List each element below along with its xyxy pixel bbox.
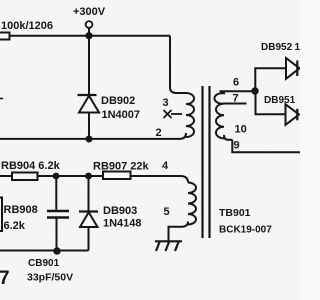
- transformer TB901 lower winding pins 4-5: [169, 183, 197, 241]
- capacitor CB901: [47, 211, 69, 218]
- node junction +300V rail: [85, 32, 92, 39]
- svg-text:100k/1206: 100k/1206: [1, 20, 53, 32]
- svg-text:RB907 22k: RB907 22k: [93, 161, 150, 173]
- svg-text:1N4007: 1N4007: [102, 109, 141, 121]
- diode DB902: [78, 95, 100, 113]
- wire to DB951: [256, 91, 286, 114]
- svg-text:RB908: RB908: [4, 204, 38, 216]
- resistor RB907: [103, 172, 131, 180]
- svg-text:7: 7: [233, 93, 239, 105]
- transformer TB901 secondary winding pins 6-7-10-9: [214, 92, 232, 140]
- node tap X pin 3: [164, 110, 183, 118]
- svg-text:33pF/50V: 33pF/50V: [27, 272, 73, 284]
- svg-text:7: 7: [0, 268, 10, 289]
- svg-text:DB951: DB951: [264, 95, 296, 106]
- svg-text:4: 4: [162, 160, 169, 172]
- node junction cap CB901 tap: [53, 173, 60, 180]
- power terminal +300V: [86, 21, 93, 28]
- wire DB902 cathode lead: [88, 36, 90, 95]
- wire CB901 top lead: [55, 176, 57, 210]
- wire pin 7 tap lead: [223, 103, 247, 105]
- wire W3 middle rail to transformer pin 4: [0, 176, 188, 183]
- svg-text:9: 9: [234, 140, 240, 152]
- svg-text:DB952: DB952: [261, 42, 293, 53]
- svg-text:3: 3: [163, 97, 169, 109]
- svg-text:RB904 6.2k: RB904 6.2k: [1, 160, 61, 172]
- wire to DB952: [255, 68, 285, 91]
- wire W4 bottom rail: [0, 250, 89, 252]
- wire DB903 cathode lead: [88, 176, 90, 211]
- wire CB901 bottom lead: [56, 219, 58, 251]
- svg-text:TB901: TB901: [219, 207, 251, 219]
- svg-text:5: 5: [164, 206, 170, 218]
- resistor R 100k/1206 (body clipped at left edge): [0, 33, 10, 40]
- wire pin 6 lead: [220, 90, 255, 92]
- diode DB903: [79, 212, 98, 228]
- transformer TB901 core: [203, 86, 210, 238]
- wire DB903 anode lead: [88, 227, 90, 251]
- resistor RB908 (body clipped at left edge): [0, 198, 2, 232]
- diode DB952: [286, 58, 300, 79]
- svg-text:DB902: DB902: [101, 95, 135, 107]
- wire stub left edge: [0, 98, 3, 100]
- wire pin 9 lead: [232, 140, 300, 153]
- svg-text:CB901: CB901: [28, 258, 60, 269]
- transformer TB901 primary upper winding pins 3-2: [170, 36, 194, 139]
- node junction pin 6: [251, 87, 258, 94]
- wire terminal stem: [88, 28, 90, 33]
- ground chassis symbol: [155, 241, 182, 251]
- svg-text:+300V: +300V: [73, 6, 106, 18]
- node junction on wire W2: [86, 136, 93, 143]
- svg-text:1: 1: [295, 42, 301, 53]
- wire DB902 anode lead: [88, 113, 90, 140]
- svg-text:10: 10: [235, 124, 247, 136]
- node junction DB903 tap: [85, 173, 92, 180]
- svg-text:1N4148: 1N4148: [103, 218, 142, 230]
- svg-text:6: 6: [233, 77, 239, 89]
- svg-text:2: 2: [156, 127, 162, 139]
- svg-text:BCK19-007: BCK19-007: [219, 225, 272, 236]
- svg-text:DB903: DB903: [103, 205, 137, 217]
- svg-text:6.2k: 6.2k: [4, 220, 26, 232]
- node junction CB901 bottom: [53, 247, 60, 254]
- wire W1 top rail: [10, 35, 171, 37]
- wire W2 to transformer pin 2: [0, 138, 180, 140]
- resistor RB904: [12, 173, 38, 181]
- diode DB951: [286, 104, 300, 125]
